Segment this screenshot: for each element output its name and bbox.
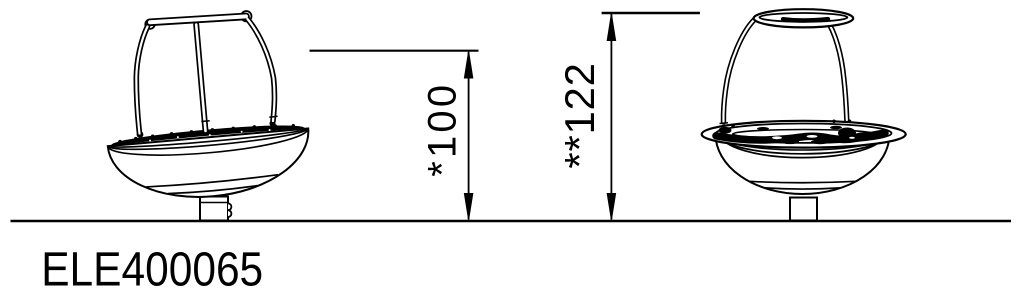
svg-text:ELE400065: ELE400065 [41,243,263,296]
svg-text:**122: **122 [556,62,603,168]
svg-text:*100: *100 [421,82,465,177]
